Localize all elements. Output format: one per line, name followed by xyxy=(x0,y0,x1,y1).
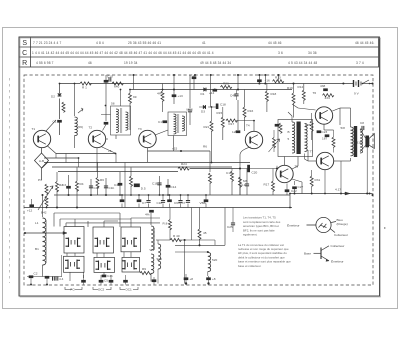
svg-text:T6: T6 xyxy=(313,91,317,95)
resistor R24 xyxy=(178,167,189,170)
svg-text:R6: R6 xyxy=(100,178,104,182)
svg-text:D3: D3 xyxy=(201,110,205,114)
wire pot to rail xyxy=(46,206,48,208)
svg-text:C18: C18 xyxy=(226,171,232,175)
capacitor C20 electrolytic xyxy=(247,165,250,172)
svg-text:R9: R9 xyxy=(142,267,146,271)
speaker HP xyxy=(365,136,369,148)
capacitor C10 xyxy=(109,77,111,81)
dashed cut-out border xyxy=(24,75,373,285)
svg-text:Émetteur: Émetteur xyxy=(331,258,344,263)
wire MF1 drop xyxy=(120,90,122,107)
wire drop x278 xyxy=(277,75,279,81)
svg-text:R31: R31 xyxy=(315,178,321,182)
capacitor xyxy=(234,94,238,96)
resistor R40 xyxy=(170,238,181,241)
junction right rail xyxy=(369,193,371,195)
svg-text:B42: B42 xyxy=(41,211,47,215)
junction xyxy=(277,74,279,76)
wire T7 emitter to rail xyxy=(324,170,326,194)
note paragraph 1 xyxy=(243,216,281,237)
capacitor C16 xyxy=(257,79,262,82)
resistor xyxy=(292,93,295,103)
svg-text:C4b: C4b xyxy=(107,274,113,278)
wire coil up xyxy=(150,213,152,225)
wire T4 emitter down xyxy=(240,147,251,195)
svg-text:640: 640 xyxy=(114,85,119,89)
wire tuner link xyxy=(25,232,67,234)
tuning gang box 4 xyxy=(64,256,85,272)
wire feed xyxy=(103,221,105,227)
wire T1 collector up xyxy=(46,120,56,131)
capacitor below rail xyxy=(167,199,172,202)
coil core xyxy=(154,228,156,250)
svg-text:C7: C7 xyxy=(142,201,146,205)
wire stub xyxy=(103,272,105,275)
wire T6 base xyxy=(298,108,316,110)
wire diamond link xyxy=(42,162,48,168)
transistor T6 xyxy=(315,107,332,124)
wire stub xyxy=(87,221,89,227)
variable capacitor pair xyxy=(122,260,137,270)
wire to T2 xyxy=(103,125,107,131)
svg-text:R 1: R 1 xyxy=(82,86,87,90)
svg-text:egalement.: egalement. xyxy=(243,233,257,237)
capacitor below rail xyxy=(137,199,142,202)
capacitor C23 xyxy=(317,130,322,133)
wire xyxy=(97,187,99,196)
svg-text:12b: 12b xyxy=(232,130,237,134)
capacitor C4 xyxy=(89,186,93,188)
note paragraph 2 xyxy=(238,243,291,268)
wire drop x133 xyxy=(133,75,135,90)
junction xyxy=(258,74,260,76)
wire stub xyxy=(83,272,85,278)
wire transformer to T5 xyxy=(284,157,286,166)
resistor P1 track2 xyxy=(45,196,48,206)
capacitor C19 xyxy=(236,130,241,133)
svg-text:C8: C8 xyxy=(360,121,364,125)
transformer TR2 core xyxy=(354,126,357,157)
wire xyxy=(125,275,127,285)
junction xyxy=(132,74,134,76)
svg-text:4%: 4% xyxy=(145,213,150,217)
wire xyxy=(53,213,55,227)
junction xyxy=(211,106,213,108)
svg-text:C: C xyxy=(22,50,27,57)
wire stub xyxy=(46,278,48,284)
capacitor xyxy=(104,80,109,83)
junction at border right xyxy=(371,194,373,196)
wire drop x190 xyxy=(189,75,191,108)
svg-text:R6: R6 xyxy=(203,145,207,149)
coil L1 antenna xyxy=(43,218,46,265)
wire y151 xyxy=(148,150,211,152)
wire xyxy=(105,75,107,84)
wire stub xyxy=(115,154,117,163)
capacitor xyxy=(157,183,161,185)
arrow xyxy=(63,232,67,235)
transformer MF2 xyxy=(168,112,187,136)
capacitor top xyxy=(192,76,197,79)
svg-text:Collecteur: Collecteur xyxy=(331,244,345,248)
svg-text:R24: R24 xyxy=(181,162,187,166)
capacitor xyxy=(292,186,297,189)
legend transistor circle xyxy=(307,217,337,232)
svg-text:T4: T4 xyxy=(246,124,250,128)
schematic outer frame xyxy=(19,37,380,296)
fold mark dotted line xyxy=(9,78,11,283)
svg-text:4.17: 4.17 xyxy=(241,183,247,187)
capacitor C12 xyxy=(29,204,34,207)
svg-text:R4: R4 xyxy=(80,182,84,186)
junction xyxy=(194,74,196,76)
wire osc coil up xyxy=(74,84,76,117)
capacitor C5 xyxy=(104,186,108,188)
wire top rail to border xyxy=(362,83,373,85)
wire xyxy=(180,239,215,241)
svg-text:P1: P1 xyxy=(38,178,42,182)
svg-text:R21: R21 xyxy=(204,125,210,129)
svg-text:4.17: 4.17 xyxy=(335,188,341,192)
wire T1 emitter diag xyxy=(48,146,57,154)
capacitor +8b xyxy=(206,277,211,280)
transistor T5 xyxy=(276,165,293,182)
capacitor C28 xyxy=(323,88,328,91)
wire drop x191 xyxy=(191,208,193,241)
wire rail A y195 xyxy=(54,194,290,196)
resistor R4 xyxy=(76,181,79,191)
resistor R22 xyxy=(239,177,242,187)
wire y245 xyxy=(175,244,225,246)
svg-text:C27: C27 xyxy=(298,185,304,189)
capacitor C1 blob xyxy=(57,120,62,123)
wire xyxy=(150,274,152,282)
coil TR1 secondary xyxy=(305,124,308,152)
potentiometer P1 arrow xyxy=(38,186,53,210)
svg-text:C2: C2 xyxy=(34,272,38,276)
resistor R2 xyxy=(56,182,59,192)
resistor R20 xyxy=(273,138,276,148)
capacitor on rail xyxy=(81,280,86,283)
wire xyxy=(131,217,160,219)
junction right rail xyxy=(294,193,296,195)
wire xyxy=(121,195,123,200)
svg-text:R17: R17 xyxy=(229,122,235,126)
resistor R10 xyxy=(112,82,123,85)
svg-text:3 7 4: 3 7 4 xyxy=(356,61,364,65)
wire to speaker top xyxy=(360,129,365,138)
table row R values xyxy=(36,61,364,65)
bracket PO xyxy=(65,287,82,290)
svg-text:C14: C14 xyxy=(171,185,177,189)
wire xyxy=(156,239,170,241)
battery 9V xyxy=(354,80,362,87)
transistor T2 xyxy=(88,130,105,147)
svg-text:OC2: OC2 xyxy=(98,288,105,292)
svg-text:C45: C45 xyxy=(230,94,236,98)
wire to T3 base lead xyxy=(59,122,61,135)
wire stub xyxy=(55,154,57,159)
svg-text:D2: D2 xyxy=(51,95,55,99)
svg-text:C7: C7 xyxy=(182,201,186,205)
capacitor blob xyxy=(275,124,280,127)
wire MF1 sec down xyxy=(115,135,117,139)
wire xyxy=(76,190,78,208)
capacitor below rail xyxy=(204,199,209,202)
svg-text:310: 310 xyxy=(357,141,362,145)
svg-text:99: 99 xyxy=(133,95,137,99)
resistor R9b xyxy=(140,271,151,274)
resistor R31 xyxy=(310,176,313,186)
junction at border xyxy=(371,82,373,84)
capacitor xyxy=(188,110,192,112)
resistor R27 xyxy=(332,137,335,147)
resistor xyxy=(130,176,133,186)
resistor P1 track xyxy=(45,184,48,194)
wire T5 collector xyxy=(292,166,298,169)
wire xyxy=(110,275,112,285)
transistor T1 xyxy=(33,130,50,147)
wire stub xyxy=(96,253,98,257)
wire xyxy=(162,195,164,200)
wire xyxy=(105,84,107,122)
junction xyxy=(105,105,107,107)
wire bottom left link xyxy=(27,276,62,278)
wire xyxy=(205,195,207,200)
wire xyxy=(59,219,61,227)
svg-text:4 5 43 44 34 44 48: 4 5 43 44 34 44 48 xyxy=(288,61,317,65)
wire T1 to diamond xyxy=(41,148,43,153)
wire xyxy=(66,222,160,224)
svg-text:C1b: C1b xyxy=(157,201,163,205)
resistor R23 xyxy=(221,85,232,88)
capacitor C13 xyxy=(172,94,177,97)
capacitor C8 blob xyxy=(149,210,154,213)
junction xyxy=(264,74,266,76)
wire xyxy=(83,275,85,285)
wire diag xyxy=(292,104,298,108)
wire T3 collector to MF2 xyxy=(155,130,168,135)
wire diamond down xyxy=(41,168,43,180)
svg-text:T2: T2 xyxy=(89,126,93,130)
resistor R6 xyxy=(96,178,99,188)
svg-text:520: 520 xyxy=(212,258,217,262)
svg-text:7 7 21 23 24 4 4 7: 7 7 21 23 24 4 4 7 xyxy=(33,41,61,45)
capacitor below rail xyxy=(146,201,150,203)
variable capacitor pair xyxy=(66,238,81,248)
wire T5 base up xyxy=(276,166,278,169)
transistor T7 xyxy=(316,152,333,169)
wire xyxy=(119,213,121,227)
svg-text:4%: 4% xyxy=(157,92,162,96)
wire xyxy=(100,275,102,285)
arrow rail xyxy=(345,192,350,195)
svg-text:187: 187 xyxy=(322,137,327,141)
capacitor below rail xyxy=(178,201,182,203)
svg-text:C18: C18 xyxy=(220,103,226,107)
wire top rail main xyxy=(90,83,354,85)
junction battery rail xyxy=(342,82,344,84)
resistor R1 xyxy=(80,82,91,85)
variable capacitor pair xyxy=(122,238,137,248)
wire y252 xyxy=(175,251,208,253)
svg-text:(06): (06) xyxy=(78,125,84,129)
svg-text:T7: T7 xyxy=(310,150,314,154)
resistor R18 xyxy=(265,91,268,101)
wire stub xyxy=(30,278,32,285)
capacitor C22 xyxy=(285,189,290,192)
svg-text:R13: R13 xyxy=(275,76,281,80)
wire T5 out xyxy=(292,179,302,182)
pot arrow TR1 xyxy=(269,139,280,152)
capacitor C2 xyxy=(29,275,34,278)
resistor R14 xyxy=(226,119,237,122)
wire L1 up xyxy=(42,195,44,217)
wire xyxy=(138,195,140,200)
coil L1 core line xyxy=(45,220,47,263)
wire T7 collector xyxy=(334,160,340,162)
svg-text:C3: C3 xyxy=(62,183,66,187)
svg-text:(Rouge): (Rouge) xyxy=(337,222,348,226)
parts list table xyxy=(19,37,379,67)
bracket OC1 xyxy=(120,287,138,290)
tuning gang box 2 xyxy=(93,227,114,253)
trimmer arrow xyxy=(78,108,83,113)
wire xyxy=(148,195,150,200)
svg-text:C22: C22 xyxy=(291,189,297,193)
svg-text:+8: +8 xyxy=(212,277,216,281)
svg-text:VBB: VBB xyxy=(200,201,206,205)
svg-text:+12: +12 xyxy=(27,209,33,213)
wire xyxy=(294,181,296,185)
wire long y171 xyxy=(58,171,178,173)
svg-text:C1E: C1E xyxy=(152,182,158,186)
wire T7 base xyxy=(308,160,316,162)
wire xyxy=(56,172,58,182)
resistor R16 xyxy=(243,107,246,117)
wire drop x125 xyxy=(124,163,126,208)
capacitor on rail xyxy=(99,280,104,283)
wire stub xyxy=(103,253,105,257)
capacitor C25 xyxy=(231,223,235,225)
junction xyxy=(210,74,212,76)
junction right rail xyxy=(311,193,313,195)
tuning gang box 3 xyxy=(121,227,141,252)
wire rail right y193 xyxy=(290,193,373,195)
transistor T3 xyxy=(139,130,156,147)
wire xyxy=(157,269,159,284)
svg-text:438: 438 xyxy=(320,84,325,88)
wire long y162 xyxy=(44,162,250,164)
capacitor C8 xyxy=(362,126,364,130)
variable capacitor pair xyxy=(96,261,111,271)
wire xyxy=(224,208,226,246)
svg-text:19 19 34: 19 19 34 xyxy=(124,61,138,65)
resistor xyxy=(209,173,212,183)
svg-text:C6m: C6m xyxy=(174,201,181,205)
wire rail join x290 xyxy=(289,194,291,208)
svg-text:D1: D1 xyxy=(201,92,205,96)
wire xyxy=(76,168,78,182)
svg-text:B1: B1 xyxy=(35,247,39,251)
wire stub xyxy=(69,272,71,281)
wire R14 to T4 xyxy=(236,120,254,122)
capacitor pair xyxy=(53,276,55,280)
wire TR1 top xyxy=(291,116,293,122)
wire to T2 xyxy=(106,138,108,140)
variable capacitor pair xyxy=(95,238,110,248)
wire D2 up xyxy=(59,84,61,94)
svg-text:R19: R19 xyxy=(287,86,293,90)
svg-text:A-B: A-B xyxy=(39,159,44,163)
svg-text:4 55 6 98 7: 4 55 6 98 7 xyxy=(36,61,54,65)
transformer driver TR1 xyxy=(278,120,313,157)
svg-text:R15: R15 xyxy=(217,111,223,115)
wire osc coil down xyxy=(74,136,76,149)
diode D5 dark box xyxy=(134,184,140,188)
wire TR1 sec down xyxy=(304,154,306,160)
node diamond A-B xyxy=(35,153,49,168)
wire long y167 xyxy=(52,166,232,168)
coil L4 xyxy=(151,254,154,273)
capacitor on rail xyxy=(109,280,114,283)
switch lever xyxy=(363,80,370,84)
svg-text:D.5: D.5 xyxy=(141,187,146,191)
junction xyxy=(237,74,239,76)
wire drop x265 xyxy=(264,75,266,84)
resistor xyxy=(231,171,234,181)
svg-text:46 44 45 46.: 46 44 45 46. xyxy=(355,41,375,45)
wire T6 collector xyxy=(332,108,340,111)
svg-text:Collecteur: Collecteur xyxy=(334,233,348,237)
wire drop x210 xyxy=(210,75,212,107)
capacitor below rail xyxy=(186,201,190,203)
svg-text:5/8: 5/8 xyxy=(341,126,346,130)
wire y168 link xyxy=(240,168,277,170)
wire xyxy=(104,220,118,222)
svg-text:R16: R16 xyxy=(248,109,254,113)
svg-text:C23: C23 xyxy=(322,130,328,134)
wire xyxy=(65,223,67,227)
resistor R17 xyxy=(272,181,275,191)
wire y168 to R24 xyxy=(190,168,240,170)
speaker cone xyxy=(369,134,374,149)
junction right rail xyxy=(340,193,342,195)
wire L1 down xyxy=(42,265,44,277)
svg-text:46: 46 xyxy=(88,61,92,65)
junction xyxy=(173,74,175,76)
coil L3 xyxy=(151,226,154,250)
diode D3 xyxy=(203,105,205,109)
tuning gang box 1 xyxy=(64,227,84,254)
wire secondary rail y90 xyxy=(130,89,292,91)
legend transistor symbol xyxy=(314,246,330,262)
svg-text:45: 45 xyxy=(203,231,207,235)
svg-text:979: 979 xyxy=(157,257,162,261)
resistor R21 xyxy=(210,121,213,131)
svg-text:R: R xyxy=(22,60,27,67)
svg-text:R25: R25 xyxy=(305,123,311,127)
bracket OC2 xyxy=(93,287,111,290)
svg-text:C17: C17 xyxy=(158,120,164,124)
wire xyxy=(180,195,182,200)
svg-text:C25: C25 xyxy=(227,225,233,229)
wire long y153 xyxy=(56,153,116,155)
capacitor pair2 xyxy=(56,276,58,280)
wire feed xyxy=(74,219,76,227)
diode D2 xyxy=(58,94,62,96)
